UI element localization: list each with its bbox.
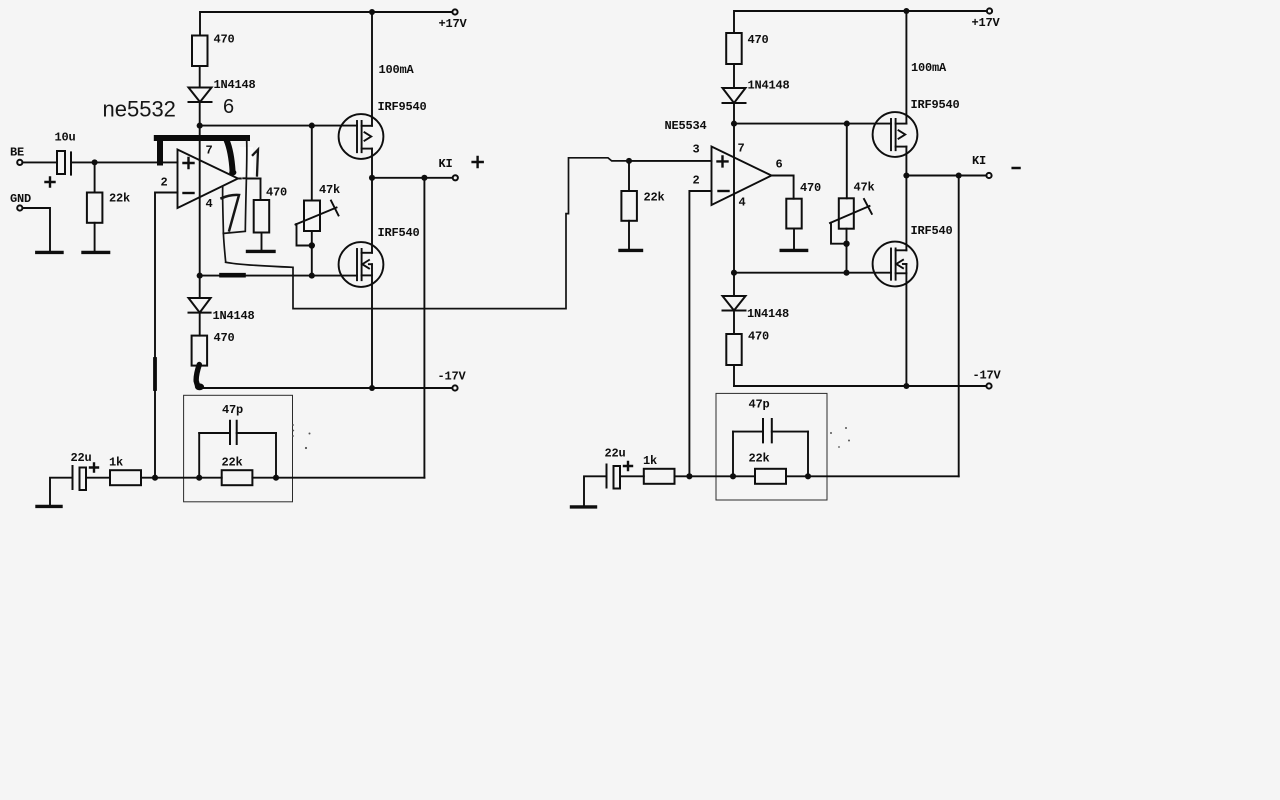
annotation pen loop right side [223, 140, 247, 234]
wire C4 left drop [732, 432, 734, 477]
svg-text:22k: 22k [749, 452, 770, 466]
diode D1 1N4148 [189, 88, 212, 103]
wire feedback row left [141, 477, 424, 479]
annotation thick marker diagonal [227, 140, 233, 172]
wire U1 -input to feedback [155, 193, 178, 478]
wire supply line through op-amp right [733, 124, 735, 273]
svg-text:NE5534: NE5534 [665, 119, 707, 133]
wire feedback vertical left [423, 178, 425, 478]
resistor R5 22k feedback [222, 470, 253, 485]
svg-text:7: 7 [206, 144, 213, 158]
wire C4 left arm [733, 431, 763, 433]
resistor R6 1k [110, 470, 141, 485]
node R11 left [730, 473, 736, 479]
polarity + C1 [46, 178, 55, 187]
node feedback takeoff right [956, 172, 962, 178]
resistor R3 470 (output load) [254, 200, 270, 233]
transistor Q2 IRF540 [339, 242, 384, 287]
node lower gate wire right [731, 270, 737, 276]
terminal +17V right [987, 8, 992, 13]
svg-text:6: 6 [223, 96, 234, 118]
polarity + C3 [90, 464, 98, 472]
wire lower gate right [734, 272, 891, 274]
svg-text:BE: BE [10, 146, 24, 160]
terminal KI- [986, 173, 991, 178]
resistor R11 22k feedback [755, 469, 786, 484]
box feedback network left [184, 395, 293, 502]
wire P2 wiper bend [831, 223, 847, 244]
svg-text:47p: 47p [222, 403, 243, 417]
wire C4 right drop [807, 432, 809, 477]
wire C3 to R6 [86, 477, 110, 479]
wire pot P2 top lead [846, 124, 848, 199]
wire C2 right arm [237, 432, 276, 434]
svg-text:1N4148: 1N4148 [214, 78, 256, 92]
svg-text:3: 3 [693, 143, 700, 157]
wire +17V rail right [734, 11, 986, 33]
svg-text:6: 6 [776, 158, 783, 172]
svg-text:1k: 1k [109, 456, 123, 470]
wire R9 to ground [793, 229, 795, 250]
wire node to D4 [733, 273, 735, 296]
annotation thick marker L-stroke [157, 138, 247, 163]
wire U2 -input to feedback [689, 191, 711, 476]
wire input node to R8 [628, 161, 630, 191]
svg-text:1N4148: 1N4148 [747, 307, 789, 321]
wire U1 output [238, 177, 261, 179]
svg-text:47k: 47k [854, 181, 875, 195]
svg-text:22u: 22u [605, 447, 626, 461]
capacitor C1 10u [57, 151, 71, 175]
resistor R1 470 (V+ bias) [192, 36, 208, 67]
capacitor C2 47p [230, 421, 237, 444]
wire C1 to U1 +input [71, 161, 178, 163]
wire -17V rail left [202, 387, 452, 389]
wire R3 to ground [261, 233, 263, 251]
node P2 wiper [843, 241, 849, 247]
wire D2 to R4 [199, 313, 201, 336]
transistor Q4 IRF540 [873, 242, 918, 287]
annotation thick stroke R4 to rail [196, 365, 199, 386]
wire BE to C1 [23, 161, 57, 163]
node input right [626, 158, 632, 164]
pin - U2 [719, 190, 729, 192]
resistor R10 470 (V- bias) [726, 334, 741, 365]
pin + U2 [718, 156, 728, 166]
diode D2 1N4148 [189, 298, 211, 313]
polarity + KI [473, 157, 483, 167]
node P1 bottom [309, 273, 315, 279]
node feedback takeoff left [421, 175, 427, 181]
svg-text:470: 470 [800, 181, 821, 195]
wire Q2 drain [371, 178, 373, 253]
transistor Q1 IRF9540 [339, 114, 384, 159]
wire U2 output [772, 176, 794, 199]
wire supply line through op-amp [199, 126, 201, 276]
node minus join right [686, 473, 692, 479]
svg-text:2: 2 [161, 176, 168, 190]
resistor R12 1k [644, 469, 675, 484]
node input left [92, 159, 98, 165]
wire pot P1 top lead [311, 126, 313, 201]
node R5 right [273, 475, 279, 481]
op-amp U2 triangle [712, 147, 772, 206]
wire link to right channel [226, 158, 629, 309]
node pot P1 top [309, 123, 315, 129]
wire Q3 drain [905, 11, 907, 124]
terminal BE [17, 160, 22, 165]
wire upper gate right [734, 123, 891, 125]
wire input to U2 [629, 160, 712, 162]
node gate wire top left [197, 123, 203, 129]
svg-text:-17V: -17V [438, 370, 467, 384]
potentiometer P1 47k [304, 201, 320, 232]
wiper arrow P1 [296, 201, 339, 225]
wire C5 ground riser [584, 476, 607, 505]
capacitor C5 22u [607, 465, 621, 489]
terminal +17V left [452, 9, 457, 14]
terminal -17V left [452, 385, 457, 390]
svg-text:IRF540: IRF540 [378, 226, 420, 240]
node minus join [152, 475, 158, 481]
svg-text:7: 7 [738, 142, 745, 156]
annotation 1 handwritten [253, 150, 258, 176]
wire upper gate left [200, 125, 357, 127]
svg-text:470: 470 [214, 33, 235, 47]
svg-text:1N4148: 1N4148 [748, 79, 790, 93]
diode D3 1N4148 [723, 88, 746, 103]
annotation 7 handwritten [222, 195, 240, 231]
wire D3 to node [733, 103, 735, 124]
svg-text:GND: GND [10, 192, 31, 206]
wire C2 right drop [275, 433, 277, 478]
node -17V drain junction left [369, 385, 375, 391]
svg-text:470: 470 [748, 33, 769, 47]
svg-text:4: 4 [206, 197, 213, 211]
wire P1 wiper bend [297, 224, 312, 246]
capacitor C4 47p [763, 419, 772, 442]
stray specks left [292, 424, 310, 449]
annotation thick stroke on minus line [153, 359, 157, 389]
wire node to R2 [94, 162, 96, 192]
wire Q2 source to -17V [371, 264, 373, 388]
svg-text:1N4148: 1N4148 [213, 309, 255, 323]
wire P2 bottom lead [846, 229, 848, 273]
terminal KI+ [453, 175, 458, 180]
ground C5 [572, 505, 596, 508]
svg-text:100mA: 100mA [911, 61, 947, 75]
whiteout patch [240, 147, 254, 176]
pin - U1 [184, 192, 194, 194]
wire +17V rail left [200, 12, 452, 35]
wire C3 ground riser [50, 478, 73, 505]
wire Q4 source to -17V [905, 264, 907, 386]
svg-text:KI: KI [439, 157, 453, 171]
wire output to R3 [260, 179, 262, 201]
svg-text:47p: 47p [749, 398, 770, 412]
pin + U1 [184, 158, 194, 168]
node gate wire top right [731, 121, 737, 127]
svg-text:IRF540: IRF540 [911, 224, 953, 238]
resistor R4 470 (V- bias) [192, 336, 208, 366]
box feedback network right [716, 393, 827, 500]
ground GND [37, 251, 62, 254]
node R5 left [196, 475, 202, 481]
svg-text:IRF9540: IRF9540 [911, 98, 960, 112]
diode D4 1N4148 [723, 296, 746, 311]
wire GND [23, 208, 50, 251]
node P1 wiper [309, 242, 315, 248]
ground C3 [37, 505, 61, 508]
op-amp U1 triangle [178, 150, 239, 209]
wire Q1 source to output [371, 149, 373, 178]
polarity + C5 [624, 462, 632, 470]
wire Q1 drain [371, 12, 373, 126]
terminal -17V right [986, 383, 991, 388]
svg-text:22k: 22k [644, 191, 665, 205]
polarity - KI [1013, 167, 1020, 170]
wire R7 to D3 [733, 64, 735, 88]
node P2 bottom [843, 270, 849, 276]
svg-text:2: 2 [693, 174, 700, 188]
wire output to KI+ [372, 177, 453, 179]
node lower gate wire left [197, 273, 203, 279]
wire Q3 source to output [905, 147, 907, 176]
svg-text:100mA: 100mA [379, 63, 415, 77]
svg-text:+17V: +17V [972, 16, 1001, 30]
node pot P2 top [844, 121, 850, 127]
svg-text:470: 470 [266, 186, 287, 200]
wire feedback row right [675, 475, 959, 477]
wire C5 to R12 [621, 475, 644, 477]
wire lower gate left [200, 275, 357, 277]
node -17V drain junction right [903, 383, 909, 389]
wire node to D2 [199, 276, 201, 298]
terminal GND [17, 205, 22, 210]
svg-text:+17V: +17V [439, 17, 468, 31]
ground R2 [83, 251, 109, 254]
wire Q4 drain [905, 176, 907, 251]
svg-text:1k: 1k [643, 454, 657, 468]
svg-text:22k: 22k [222, 456, 243, 470]
resistor R8 22k [621, 191, 637, 221]
wire C2 left drop [198, 433, 200, 478]
svg-text:4: 4 [739, 196, 746, 210]
ground R9 [781, 249, 806, 252]
node rail/drain junction left [369, 9, 375, 15]
svg-text:470: 470 [214, 331, 235, 345]
wire D1 to node [199, 102, 201, 126]
wire -17V rail right [734, 385, 986, 387]
svg-text:ne5532: ne5532 [103, 97, 176, 122]
svg-text:IRF9540: IRF9540 [378, 100, 427, 114]
resistor R7 470 (V+ bias) [726, 33, 742, 64]
wire R10 to -17V rail [733, 365, 735, 386]
svg-text:KI: KI [972, 154, 986, 168]
stray specks right [830, 427, 850, 448]
node output left [369, 175, 375, 181]
annotation thick dash on lower gate wire [222, 273, 244, 278]
wire C4 right arm [772, 431, 808, 433]
node rail/drain junction right [903, 8, 909, 14]
wire R2 to ground [94, 223, 96, 251]
annotation pen loop left side [223, 187, 226, 263]
wire output to KI- [906, 175, 986, 177]
potentiometer P2 47k [839, 198, 854, 228]
wire R1 to D1 [199, 66, 201, 88]
svg-text:-17V: -17V [973, 369, 1002, 383]
wire P1 bottom lead [311, 231, 313, 276]
wiper arrow P2 [830, 199, 872, 223]
svg-text:470: 470 [748, 330, 769, 344]
wire D4 to R10 [733, 311, 735, 335]
ground R3 [248, 250, 275, 253]
capacitor C3 22u [73, 466, 87, 490]
resistor R2 22k [87, 193, 103, 223]
svg-text:10u: 10u [55, 131, 76, 145]
wire C2 left arm [199, 432, 230, 434]
svg-text:22k: 22k [109, 192, 130, 206]
node R11 right [805, 473, 811, 479]
svg-text:22u: 22u [71, 451, 92, 465]
wire R8 to ground [628, 221, 630, 249]
resistor R9 470 (output load) [786, 199, 801, 229]
transistor Q3 IRF9540 [873, 112, 918, 157]
svg-text:47k: 47k [319, 183, 340, 197]
node output right [903, 172, 909, 178]
ground R8 [620, 249, 642, 252]
wire feedback vertical right [958, 176, 960, 477]
